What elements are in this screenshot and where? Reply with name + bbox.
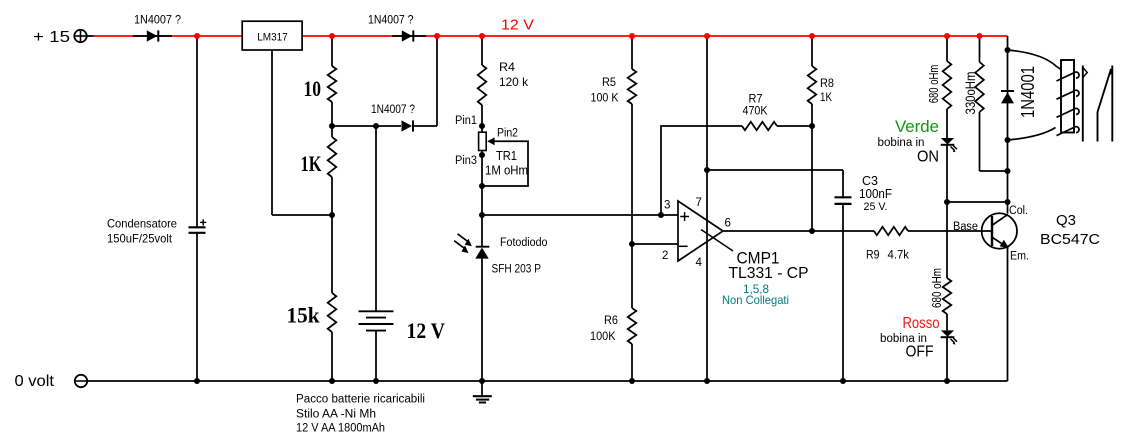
- svg-text:100nF: 100nF: [859, 187, 892, 201]
- node divider junction: [629, 241, 635, 247]
- wire terminal stub: [87, 35, 95, 37]
- svg-text:R9: R9: [866, 250, 880, 262]
- node C3 top junction: [704, 167, 710, 173]
- node 0 volt terminal: [75, 375, 87, 387]
- diode D1 1N4007: [147, 30, 158, 41]
- svg-text:LM317: LM317: [257, 31, 288, 43]
- wire filter-cap branch x=197: [196, 36, 198, 227]
- svg-text:470K: 470K: [743, 106, 768, 118]
- wire op-amp supply column x=707: [706, 36, 708, 381]
- wire divider branch x=632: [631, 36, 633, 69]
- node +15 input terminal: [74, 30, 86, 42]
- svg-text:2: 2: [662, 250, 668, 262]
- node Pin3 junction: [479, 152, 485, 158]
- wire collector link: [947, 201, 1008, 203]
- resistor 10: [328, 66, 337, 102]
- svg-text:TL331 - CP: TL331 - CP: [729, 265, 809, 282]
- diode D2 1N4007: [402, 30, 413, 41]
- svg-text:1N4007 ?: 1N4007 ?: [371, 102, 415, 116]
- svg-text:12 V: 12 V: [501, 18, 534, 34]
- node wiper junction: [479, 183, 485, 189]
- svg-text:Pin2: Pin2: [497, 128, 518, 140]
- svg-text:1N4007 ?: 1N4007 ?: [368, 13, 414, 27]
- photodiode D5 SFH203: [476, 246, 490, 248]
- wire emitter: [1007, 248, 1009, 381]
- wire op-amp - input: [632, 243, 678, 245]
- node output/R8 junction: [809, 228, 815, 234]
- node feedback/+input junction: [658, 212, 664, 218]
- svg-text:12 V: 12 V: [407, 318, 446, 343]
- capacitor C filter 150uF: [189, 226, 206, 228]
- wire D3 branch y=126: [332, 125, 401, 127]
- svg-text:Stilo AA -Ni Mh: Stilo AA -Ni Mh: [296, 409, 376, 421]
- svg-text:Pin3: Pin3: [455, 155, 477, 167]
- resistor 680 oHm (bottom): [943, 278, 952, 314]
- wire R8 pull-up branch x=812: [811, 36, 813, 66]
- resistor R7: [742, 122, 777, 130]
- svg-text:BC547C: BC547C: [1040, 231, 1100, 248]
- svg-text:+ 15: + 15: [33, 29, 70, 46]
- wire LM317 ADJ pin: [271, 50, 273, 215]
- svg-text:12 V AA 1800mAh: 12 V AA 1800mAh: [296, 423, 385, 435]
- wire op-amp + input: [482, 214, 678, 216]
- resistor R9: [874, 227, 908, 235]
- relay contact NO: [1111, 66, 1113, 142]
- svg-text:680 oHm: 680 oHm: [926, 65, 941, 104]
- svg-text:3: 3: [664, 200, 670, 212]
- svg-text:R6: R6: [604, 315, 618, 327]
- resistor R8: [808, 66, 817, 104]
- wire diode D2 leads (black): [392, 35, 426, 37]
- svg-text:Rosso: Rosso: [903, 315, 940, 332]
- svg-text:150uF/25volt: 150uF/25volt: [107, 232, 173, 246]
- svg-text:1M oHm: 1M oHm: [485, 164, 528, 178]
- svg-text:330oHm: 330oHm: [962, 72, 978, 115]
- relay contact common: [1082, 66, 1084, 142]
- svg-text:R8: R8: [820, 78, 834, 90]
- svg-text:100K: 100K: [590, 331, 616, 343]
- svg-text:1N4007 ?: 1N4007 ?: [134, 13, 181, 27]
- wire battery branch x=376: [375, 126, 377, 311]
- node photodiode/+input junction: [479, 212, 485, 218]
- node coil bottom junction: [1005, 137, 1011, 143]
- wire relay coil top lead: [1008, 50, 1062, 70]
- svg-text:ON: ON: [917, 149, 939, 166]
- svg-text:25 V.: 25 V.: [864, 201, 888, 213]
- svg-text:Col.: Col.: [1009, 205, 1028, 217]
- node top rail junctions (red): [194, 33, 200, 39]
- relay contact blade: [1097, 112, 1099, 142]
- svg-text:Fotodiodo: Fotodiodo: [500, 237, 548, 249]
- node R7/R8 junction: [809, 123, 815, 129]
- node C3 ground junction: [840, 378, 846, 384]
- svg-text:15k: 15k: [287, 303, 321, 328]
- trimmer TR1 wiper arrow: [487, 137, 494, 145]
- svg-text:680 oHm: 680 oHm: [929, 268, 944, 308]
- svg-text:Pin1: Pin1: [455, 115, 477, 127]
- resistor 15k: [328, 293, 337, 332]
- svg-text:4.7k: 4.7k: [888, 250, 910, 262]
- svg-text:TR1: TR1: [496, 149, 517, 163]
- wire 0V bottom rail: [87, 380, 1007, 382]
- svg-text:1N4001: 1N4001: [1017, 66, 1038, 118]
- resistor R6: [628, 308, 637, 344]
- LED rosso: [941, 330, 954, 336]
- svg-text:SFH 203 P: SFH 203 P: [492, 264, 542, 276]
- svg-text:OFF: OFF: [906, 344, 934, 361]
- resistor 330oHm: [975, 62, 984, 112]
- transistor Q3 BC547C: [982, 213, 1017, 248]
- svg-text:6: 6: [725, 218, 731, 230]
- wire 12V top rail (red): [93, 35, 242, 37]
- resistor R5: [628, 69, 637, 104]
- wire output net y=231: [723, 230, 874, 232]
- relay coil K1: [1061, 60, 1074, 133]
- svg-text:10: 10: [304, 76, 322, 101]
- wire diode D1 leads (black): [133, 35, 172, 37]
- node 330 junction: [1005, 168, 1011, 174]
- svg-text:100 K: 100 K: [591, 93, 619, 105]
- svg-text:Condensatore: Condensatore: [107, 217, 177, 231]
- wire relay/collector column x=1007: [1007, 36, 1009, 214]
- svg-text:Pacco batterie ricaricabili: Pacco batterie ricaricabili: [296, 394, 425, 406]
- svg-text:R4: R4: [499, 60, 515, 74]
- op-amp U2 TL331 triangle: [678, 201, 723, 261]
- wire TR1 wiper loop: [482, 141, 528, 186]
- trimmer TR1 body: [479, 132, 487, 150]
- node photodiode-ground junction: [479, 378, 485, 384]
- wire feedback R7 net: [661, 126, 742, 215]
- svg-text:Non Collegati: Non Collegati: [722, 293, 789, 307]
- wire relay coil bottom lead: [1008, 128, 1056, 141]
- svg-text:120 k: 120 k: [499, 75, 529, 89]
- svg-text:Q3: Q3: [1056, 212, 1076, 229]
- wire C3 decoupling net: [707, 169, 843, 171]
- node coil top junction: [1005, 47, 1011, 53]
- capacitor C3: [835, 196, 852, 198]
- op-amp - sign: [679, 245, 688, 247]
- svg-text:Em.: Em.: [1010, 251, 1029, 263]
- svg-text:R5: R5: [602, 77, 616, 89]
- resistor R4: [478, 65, 487, 105]
- node bottom rail junctions: [194, 378, 200, 384]
- node mid junctions: [329, 123, 335, 129]
- svg-text:0 volt: 0 volt: [15, 373, 55, 390]
- op-amp + sign: [680, 216, 689, 218]
- node LED/collector junction: [944, 199, 950, 205]
- svg-text:Verde: Verde: [895, 117, 939, 136]
- node collector-link junction: [1005, 199, 1011, 205]
- svg-text:1K: 1K: [820, 92, 832, 104]
- regulator U1 LM317: [242, 21, 302, 50]
- wire 330 ohm branch x=978: [979, 36, 981, 62]
- op-amp leader line: [701, 230, 733, 252]
- svg-text:4: 4: [696, 257, 703, 269]
- diode D3 1N4007: [402, 120, 413, 131]
- wire R4/pot/photodiode branch x=482: [481, 36, 483, 65]
- svg-text:7: 7: [696, 197, 702, 209]
- resistor 1K: [328, 137, 337, 177]
- svg-text:C3: C3: [862, 173, 878, 188]
- svg-text:1K: 1K: [301, 151, 322, 176]
- photodiode light arrows: [458, 234, 468, 242]
- ground symbol: [481, 381, 483, 395]
- LED verde: [941, 138, 954, 144]
- diode D4 1N4001: [1001, 90, 1014, 92]
- resistor 680 oHm (top): [943, 61, 952, 109]
- wire LED branch x=947: [946, 36, 948, 61]
- battery 12V pack: [359, 310, 394, 312]
- svg-text:Base: Base: [953, 221, 978, 233]
- svg-text:bobina in: bobina in: [878, 137, 925, 149]
- node Pin1 junction: [479, 123, 485, 129]
- wire resistor-chain x=332: [331, 36, 333, 66]
- svg-text:R7: R7: [749, 94, 763, 106]
